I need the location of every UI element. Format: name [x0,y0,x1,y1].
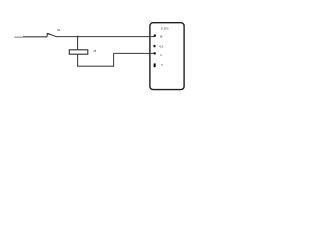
svg-text:47: 47 [93,49,97,53]
wire R1 bottom down [77,54,79,66]
switch S1 knob [47,33,50,35]
switch S1 [47,33,57,37]
pin 1 [154,35,156,37]
svg-text:S1: S1 [57,28,60,32]
svg-text:48: 48 [160,34,163,38]
wire branch down to R1 [77,37,79,51]
svg-text:b: b [160,53,162,57]
pin 4 [154,63,156,67]
wire input [23,36,47,38]
svg-text:8716: 8716 [164,27,169,31]
wire bottom horizontal [77,65,114,67]
wire to U1 pin 3 [114,52,155,54]
wire top net (switch to U1 pin 1) [56,36,154,38]
IC U1 body [150,23,184,90]
wire input stub (gray) [14,36,23,38]
wire step up [113,53,115,66]
resistor R1 body [69,50,88,54]
svg-text:ci: ci [161,63,164,67]
node junction [77,36,79,38]
svg-text:4.2: 4.2 [159,45,164,49]
pin 2 [154,45,156,47]
pin 3 [154,52,156,54]
